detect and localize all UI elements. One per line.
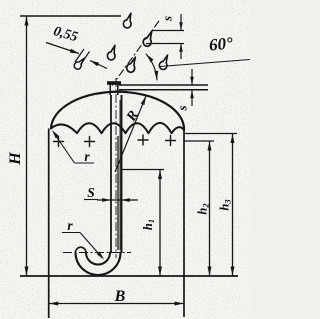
extension line h1 top xyxy=(122,169,164,171)
raindrop mid left xyxy=(106,45,116,60)
handle centre line dash-dot xyxy=(63,252,131,254)
raindrop trajectory dash-dot line xyxy=(112,21,159,86)
handle end cap xyxy=(76,247,87,252)
pole inner line xyxy=(117,136,119,250)
angle arc 60 deg xyxy=(146,54,157,80)
raindrop 0,55 xyxy=(73,56,85,71)
paper speckle overlay xyxy=(0,0,1,1)
extension line h2 top xyxy=(184,140,214,142)
leader 0,55 xyxy=(46,43,79,54)
ferrule sides xyxy=(109,85,111,96)
dimension s apex xyxy=(191,69,193,85)
plus mark 3 xyxy=(138,135,148,145)
pole centre axis dash-dot xyxy=(115,78,117,258)
extension line top (H upper datum) xyxy=(20,15,121,17)
umbrella left silhouette / B extension left xyxy=(48,129,50,319)
ground baseline xyxy=(20,275,238,277)
umbrella scalloped edge xyxy=(51,123,184,133)
leader r handle xyxy=(80,233,103,259)
ferrule cap xyxy=(107,81,121,85)
dimension s top xyxy=(180,14,182,31)
raindrop on trajectory upper xyxy=(143,31,153,46)
leader r left xyxy=(54,133,75,164)
dimension line B xyxy=(49,303,184,305)
raindrop at 60 deg leader xyxy=(159,55,168,69)
extension lines apex s xyxy=(119,84,208,86)
raindrop top left xyxy=(122,13,132,28)
handle outer arc xyxy=(76,253,121,276)
leader line 60 deg xyxy=(160,60,250,67)
umbrella dome arc xyxy=(51,92,184,130)
dimension line h1 xyxy=(159,170,161,277)
plus mark 2 xyxy=(85,137,95,147)
radius line R xyxy=(115,96,146,172)
dimension line h2 xyxy=(209,141,211,276)
extension line h3 top xyxy=(184,133,237,135)
umbrella right silhouette / B extension right xyxy=(183,130,185,317)
extension lines s top xyxy=(152,30,184,32)
raindrop on trajectory lower xyxy=(126,57,136,72)
dimension S pole xyxy=(97,199,138,201)
pole inner line 2 xyxy=(119,100,121,250)
tick marks 0,55 xyxy=(75,49,84,62)
arrow 0,55 from right xyxy=(90,61,107,69)
handle inner arc xyxy=(86,253,110,265)
dimension line h3 xyxy=(232,134,234,277)
pole right line xyxy=(121,95,123,253)
plus mark 4 xyxy=(166,136,176,146)
plus mark 1 xyxy=(54,137,64,147)
pole left line xyxy=(110,95,112,253)
dimension line H vertical xyxy=(26,16,28,276)
